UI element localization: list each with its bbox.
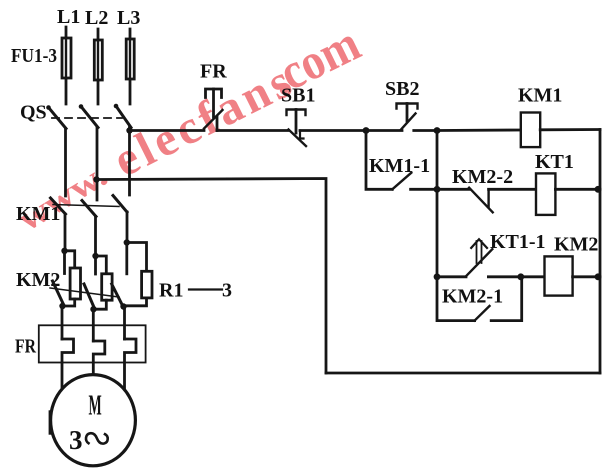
svg-text:SB2: SB2 bbox=[385, 78, 419, 100]
FR stem bbox=[212, 89, 215, 117]
contactor KM2 pole 3 bbox=[125, 243, 128, 274]
svg-text:L3: L3 bbox=[117, 7, 140, 29]
node A join bbox=[59, 303, 65, 309]
svg-text:www.: www. bbox=[12, 157, 114, 239]
wire phase B to FR bbox=[92, 309, 95, 341]
contact KT1-1 NO delayed bbox=[466, 249, 492, 276]
resistor R1 phase A branch bbox=[65, 251, 75, 268]
wire KT1 coil to right rail bbox=[555, 188, 600, 191]
node C join bbox=[120, 303, 126, 309]
svg-text:L2: L2 bbox=[85, 7, 108, 29]
svg-text:KM1: KM1 bbox=[518, 85, 562, 107]
svg-text:KM2: KM2 bbox=[554, 234, 598, 256]
node B join bbox=[90, 306, 96, 312]
coil KM1 bbox=[521, 113, 540, 148]
wire KM2 coil to right rail bbox=[573, 275, 600, 278]
wire line3 left bbox=[437, 275, 466, 278]
pushbutton SB2 actuator bbox=[397, 104, 418, 109]
svg-text:L1: L1 bbox=[57, 6, 80, 28]
wire phase B QS to KM1 bbox=[96, 128, 99, 201]
wire bottom control line bbox=[326, 372, 600, 375]
KM2 linkage bbox=[50, 288, 119, 297]
node C split bbox=[124, 239, 130, 245]
contactor KM1 pole 2 bbox=[82, 201, 96, 217]
svg-text:KT1: KT1 bbox=[535, 151, 574, 173]
mid rail vertical bbox=[436, 131, 439, 278]
wire SB2 to rail node bbox=[414, 129, 437, 132]
switch QS pole 2 blade bbox=[79, 104, 98, 127]
resistor R1 phase C branch bbox=[127, 243, 147, 272]
svg-text:KM2: KM2 bbox=[16, 269, 60, 291]
contact KM1-1 NO bbox=[392, 173, 411, 190]
FR heater phase B bbox=[93, 341, 105, 375]
svg-text:R1: R1 bbox=[159, 280, 183, 302]
svg-text:QS: QS bbox=[20, 102, 47, 124]
svg-text:KM1: KM1 bbox=[16, 203, 60, 225]
node C top tap bbox=[126, 127, 132, 133]
node mid rail top bbox=[434, 127, 441, 134]
wire phase A to FR bbox=[61, 306, 64, 339]
wire top line FR to SB1 bbox=[217, 129, 289, 132]
KT1-1 arrow head bbox=[471, 239, 487, 248]
pushbutton SB1 actuator bbox=[287, 110, 306, 116]
QS linkage dashed bbox=[52, 117, 122, 119]
FR NC contact bbox=[204, 110, 223, 129]
wire line2 to KM2-2 bbox=[437, 188, 469, 191]
node KM2-1 join bbox=[517, 273, 524, 280]
svg-text:3: 3 bbox=[69, 425, 83, 455]
wire phase B KM1 to split bbox=[94, 217, 97, 257]
branch KM2-1 bbox=[437, 277, 475, 321]
svg-text:KM2-1: KM2-1 bbox=[442, 286, 503, 308]
pushbutton SB2 NO contact bbox=[401, 114, 416, 130]
wire control top line start bbox=[130, 129, 205, 132]
KM1 linkage bbox=[53, 205, 119, 207]
wire L1 drop to QS bbox=[65, 27, 68, 104]
svg-text:KM2-2: KM2-2 bbox=[452, 166, 513, 188]
contactor KM2 pole 2 bbox=[94, 256, 97, 274]
node right rail line2 bbox=[595, 186, 602, 193]
node KM1-1 tap bbox=[363, 127, 370, 134]
svg-text:KM1-1: KM1-1 bbox=[369, 155, 430, 177]
wire phase C to FR bbox=[123, 307, 126, 340]
wire SB1 to junction bbox=[300, 129, 366, 132]
wire phase C QS to KM1 bbox=[128, 128, 131, 196]
svg-text:KT1-1: KT1-1 bbox=[490, 231, 546, 253]
svg-text:SB1: SB1 bbox=[281, 85, 315, 107]
wire junction to SB2 bbox=[366, 129, 402, 132]
wire KM2-2 to KT1 coil bbox=[489, 188, 536, 191]
fuse FU1 bbox=[62, 38, 71, 78]
contactor KM1 pole 3 bbox=[113, 196, 127, 213]
coil KT1 bbox=[536, 173, 555, 215]
wire L2 drop to QS bbox=[97, 29, 100, 104]
KT1-1 arrow shaft bbox=[476, 241, 478, 263]
watermark www.elecfans.com bbox=[12, 16, 369, 239]
motor circle left edge artifact bbox=[49, 412, 52, 433]
svg-text:M: M bbox=[89, 389, 102, 421]
node B mid tap bbox=[93, 176, 99, 182]
switch QS pole 1 blade bbox=[46, 105, 66, 128]
FR heater phase C bbox=[125, 339, 137, 390]
coil KM2 bbox=[545, 256, 573, 295]
pushbutton SB1 NC contact bbox=[289, 130, 307, 147]
wire phase C KM1 to split bbox=[126, 212, 129, 243]
svg-text:FR: FR bbox=[200, 61, 227, 83]
contactor KM2 pole 1 bbox=[63, 251, 66, 274]
wire phase A KM1 to split bbox=[64, 214, 67, 251]
contactor KM1 pole 1 bbox=[51, 198, 66, 214]
FR heater symbol top bbox=[206, 89, 222, 98]
wire phase A QS to KM1 bbox=[64, 129, 67, 197]
right rail bbox=[599, 130, 602, 374]
FR heater phase A bbox=[62, 339, 74, 390]
wire to KM1 coil bbox=[437, 129, 521, 132]
resistor R1 phase B branch bbox=[96, 256, 107, 274]
svg-text:FR: FR bbox=[15, 336, 36, 358]
wire L3 drop to QS bbox=[129, 29, 132, 104]
contact KM2-2 NC bbox=[469, 188, 493, 213]
wire node to KM2 coil bbox=[521, 275, 545, 278]
wire KM1 coil to right rail bbox=[540, 128, 600, 131]
node rail line3 bbox=[434, 273, 441, 280]
wire KT1-1 to node bbox=[488, 275, 520, 278]
fuse FU2 bbox=[94, 40, 102, 80]
thermal relay FR box bbox=[39, 325, 146, 362]
node B split bbox=[92, 253, 98, 259]
fuse FU3 bbox=[126, 39, 134, 79]
svg-text:3: 3 bbox=[222, 280, 232, 302]
switch QS pole 3 blade bbox=[114, 104, 131, 128]
contact KM2-1 NO bbox=[475, 306, 490, 321]
node rail line2 bbox=[434, 186, 441, 193]
node A split bbox=[61, 248, 67, 254]
motor M circle bbox=[51, 375, 136, 466]
svg-text:FU1-3: FU1-3 bbox=[11, 45, 57, 67]
motor lazy-S tilde bbox=[86, 433, 108, 443]
branch KM1-1 bbox=[366, 131, 392, 190]
node right rail line3 bbox=[595, 273, 602, 280]
wire control mid line to right bbox=[97, 179, 327, 374]
